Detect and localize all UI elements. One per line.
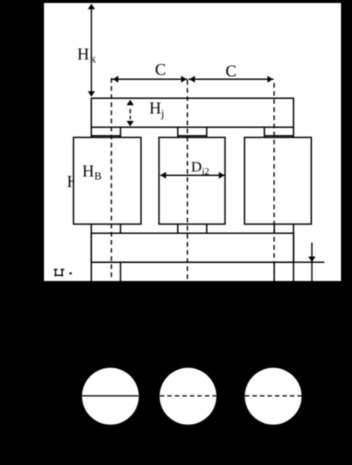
dimension Hj double arrow — [127, 100, 134, 127]
center line limb 2 — [186, 80, 188, 279]
bottom yoke — [91, 233, 293, 262]
top yoke — [91, 98, 293, 127]
limb 1 right edge — [120, 127, 122, 281]
limb left edge / outer left core line — [90, 127, 92, 281]
dimension D12 double arrow — [160, 172, 224, 179]
step shelf under top yoke limb 3 — [264, 135, 293, 137]
circle phase B — [160, 368, 217, 425]
bottom label clipped H glyph — [54, 269, 65, 277]
white drawing panel — [44, 3, 341, 281]
limb 2 right edge — [206, 127, 208, 233]
limb 3 left edge — [263, 127, 265, 224]
phase C center dashed line — [245, 395, 302, 397]
limb 2 left edge — [177, 127, 179, 233]
step shelf under top yoke limb 2 — [178, 135, 207, 137]
circle phase C — [245, 368, 302, 425]
phase B center dashed line — [160, 395, 216, 397]
winding W1 — [74, 137, 142, 224]
dimension C1 line — [112, 76, 187, 83]
circle phase A — [82, 368, 139, 425]
right leg left edge — [273, 262, 275, 281]
step shelf under top yoke limb 1 — [91, 135, 120, 137]
bottom label dot — [69, 272, 71, 274]
svg-text:C: C — [155, 60, 166, 79]
winding W3 — [245, 137, 312, 224]
bottom right arrow — [308, 243, 315, 282]
dimension C2 line — [188, 76, 273, 83]
winding W2 — [159, 137, 225, 224]
short solid segment below right winding at center — [273, 224, 275, 233]
phase A diameter line — [82, 395, 138, 397]
base plate line — [91, 261, 324, 263]
center line limb 1 — [110, 78, 112, 279]
svg-text:C: C — [226, 62, 237, 81]
dimension Hk vertical line — [88, 4, 95, 97]
center line limb 3 — [273, 83, 275, 279]
limb 3 right edge / outer right core line — [293, 127, 295, 281]
